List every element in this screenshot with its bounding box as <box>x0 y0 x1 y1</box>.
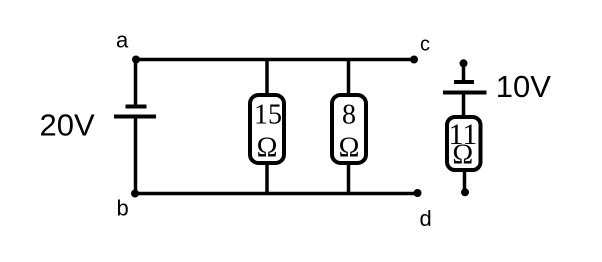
svg-text:20V: 20V <box>40 108 95 143</box>
wire 15-ohm branch top <box>265 60 269 96</box>
node d <box>414 189 422 197</box>
resistor R2 8 ohm <box>332 95 366 164</box>
battery V2 10V <box>443 82 487 93</box>
node equivalent bottom <box>461 188 469 196</box>
node b <box>131 190 139 198</box>
svg-text:10V: 10V <box>496 69 551 104</box>
wire equivalent top <box>462 63 466 80</box>
svg-text:15: 15 <box>254 100 282 131</box>
svg-text:8: 8 <box>342 100 356 131</box>
battery V1 20V <box>114 107 156 117</box>
svg-text:Ω: Ω <box>257 133 278 164</box>
wire top a-c <box>136 58 415 62</box>
wire bottom b-d <box>135 192 418 196</box>
wire 11-ohm resistor to bottom node <box>463 171 467 192</box>
resistor R3 11 ohm <box>447 117 481 171</box>
node c <box>410 56 418 64</box>
wire 8-ohm branch bottom <box>347 163 351 194</box>
svg-text:c: c <box>420 34 430 56</box>
resistor R1 15 ohm <box>250 95 284 164</box>
wire 15-ohm branch bottom <box>265 163 269 194</box>
node equivalent top <box>460 59 468 67</box>
node a <box>132 56 140 64</box>
wire left vertical (battery to b) <box>134 118 138 194</box>
svg-text:Ω: Ω <box>452 140 473 171</box>
svg-text:b: b <box>117 196 129 221</box>
wire battery to 11-ohm resistor <box>462 94 466 118</box>
svg-text:a: a <box>116 28 129 53</box>
svg-text:Ω: Ω <box>339 133 360 164</box>
wire left vertical (a to battery) <box>134 60 138 106</box>
wire 8-ohm branch top <box>347 60 351 96</box>
svg-text:d: d <box>420 206 432 231</box>
